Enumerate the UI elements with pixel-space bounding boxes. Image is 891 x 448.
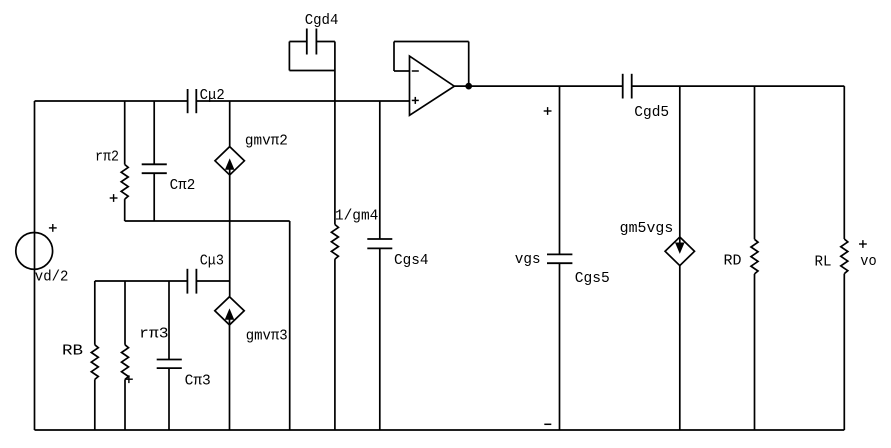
wire lower horizontal node (y=281, left of Cu3) [95,280,188,282]
wire Cgs4 bottom lead [379,248,381,430]
wire Cgs5 bottom lead [559,263,561,430]
source vd/2 [16,233,53,270]
resistor rpi2 [121,165,128,200]
wire Cgs4 top lead [379,101,381,239]
current source gmvpi2 [215,147,244,175]
wire output rail (left of Cgd5) [454,85,622,87]
svg-text:RB: RB [62,344,83,360]
wire lower horizontal node (right of Cu3) [196,280,229,282]
svg-text:RL: RL [815,254,832,270]
svg-text:vd/2: vd/2 [35,269,69,285]
wire gmvpi3 bottom lead [229,325,231,430]
svg-text:gmvπ3: gmvπ3 [246,329,288,345]
wire Cgd4 right vertical down to 1/gm4 [334,42,336,225]
wire Cgd4 bottom edge [289,70,335,72]
resistor RB [91,345,98,380]
svg-text:rπ2: rπ2 [95,149,119,165]
svg-text:Cπ2: Cπ2 [170,178,196,194]
capacitor Cgs5 [547,254,572,263]
svg-text:gmvπ2: gmvπ2 [245,133,288,149]
wire gm5vgs bottom lead [679,266,681,430]
svg-text:RD: RD [724,254,742,270]
capacitor Cgd4 [307,29,317,55]
current source gm5vgs [665,237,694,266]
svg-text:Cgd5: Cgd5 [634,105,669,121]
svg-text:1/gm4: 1/gm4 [335,208,379,224]
capacitor Cgd5 [623,74,632,99]
resistor RD [751,239,758,274]
junction dot at op-amp output [466,84,471,89]
wire Cpi3 bottom lead [168,368,170,430]
wire RD top lead [754,86,756,239]
wire Cpi2 top lead [153,101,155,164]
wire op-amp inverting input stub [394,70,410,72]
label vgs plus sign [544,107,552,115]
capacitor Cpi2 [142,164,167,173]
wire feedback top horizontal [394,41,469,43]
wire right vertical of node (x=289.7) [289,221,291,430]
wire RD bottom lead [754,274,756,430]
wire feedback right vertical [468,42,470,87]
bottom rail wire [35,429,845,431]
wire rpi3 bottom lead [124,379,126,430]
wire gmvpi2 bottom lead down through y=221 and y=281 nodes [229,175,231,297]
wire rpi2 top lead [124,101,126,165]
wire feedback left vertical [393,42,395,72]
wire left vertical rail [34,101,36,430]
wire Cgd4 top edge right [316,41,335,43]
label vo plus sign [859,240,867,248]
wire Cpi2 bottom lead [153,173,155,221]
wire RL bottom lead [843,274,845,430]
wire rpi2 bottom lead [124,199,126,221]
wire gmvpi2 top lead [229,101,231,147]
current source gmvpi3 [215,297,244,325]
wire Cgd4 left vertical [288,42,290,71]
wire rpi3 top lead [124,281,126,345]
svg-text:Cμ2: Cμ2 [200,88,225,104]
capacitor Cpi3 [157,360,182,369]
op-amp U1 [410,56,455,115]
capacitor Cu2 [188,89,197,113]
resistor 1/gm4 [331,225,338,260]
label rpi2 plus sign [110,194,118,202]
svg-text:Cgd4: Cgd4 [305,13,339,29]
svg-text:vo: vo [860,254,876,270]
wire output rail (right of Cgd5) [632,85,845,87]
label rpi3 plus sign [125,375,133,383]
svg-text:Cμ3: Cμ3 [200,254,224,270]
wire Cgs5 top lead [559,86,561,254]
label vgs minus sign [544,423,551,425]
wire RB top lead [94,281,96,345]
label vd/2 plus sign [49,224,57,232]
svg-text:rπ3: rπ3 [139,327,168,343]
svg-text:gm5vgs: gm5vgs [620,221,674,237]
wire Cgd4 top edge left [289,41,306,43]
wire gm5vgs top lead [679,86,681,237]
wire top horizontal (right of Cu2 to op-amp + input) [196,100,409,102]
op-amp minus sign [412,70,419,72]
capacitor Cu3 [187,269,196,294]
wire RL top lead [843,86,845,239]
resistor rpi3 [122,345,129,380]
capacitor Cgs4 [367,239,392,248]
resistor RL [841,239,848,274]
wire top-left horizontal (input net, left of Cu2) [35,100,188,102]
op-amp plus sign [412,97,419,104]
wire 1/gm4 bottom lead [334,259,336,430]
wire Cpi3 top lead [168,281,170,360]
wire RB bottom lead [94,379,96,430]
svg-text:Cgs4: Cgs4 [394,253,429,269]
svg-text:vgs: vgs [515,252,541,268]
svg-text:Cπ3: Cπ3 [185,374,211,390]
svg-text:Cgs5: Cgs5 [575,271,610,287]
wire middle horizontal node (y=221) [125,220,290,222]
